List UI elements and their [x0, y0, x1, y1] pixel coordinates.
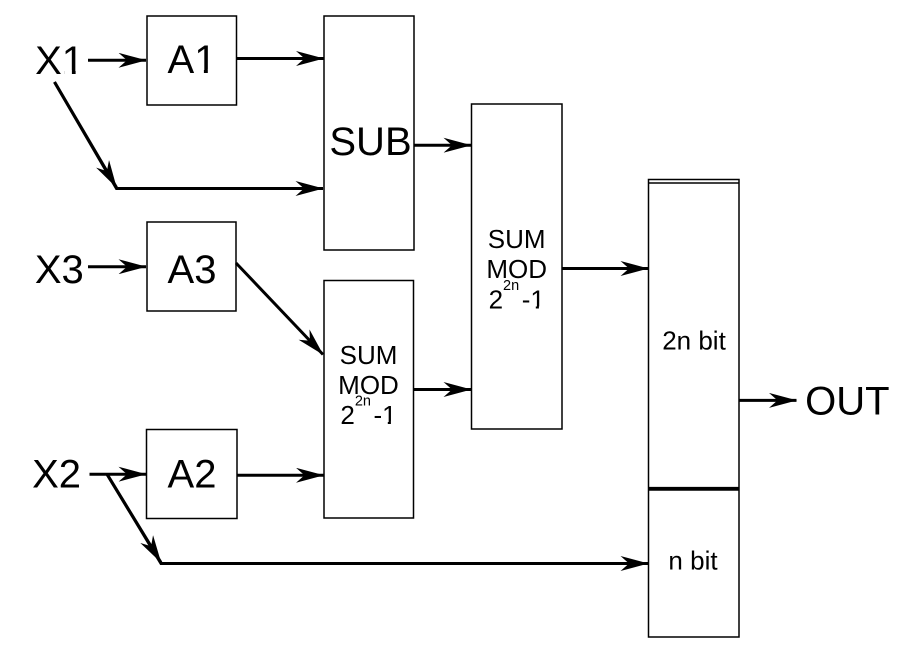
- svg-text:n bit: n bit: [668, 546, 718, 576]
- svg-text:SUM: SUM: [340, 340, 398, 370]
- svg-text:A3: A3: [168, 248, 217, 292]
- svg-text:SUM: SUM: [488, 224, 546, 254]
- svg-text:A2: A2: [168, 453, 217, 497]
- svg-text:A1: A1: [168, 38, 217, 82]
- svg-text:OUT: OUT: [805, 379, 889, 423]
- svg-text:X2: X2: [32, 453, 81, 497]
- svg-text:X1: X1: [35, 39, 84, 83]
- svg-text:2n bit: 2n bit: [662, 325, 726, 355]
- svg-text:X3: X3: [35, 248, 84, 292]
- svg-text:SUB: SUB: [329, 120, 411, 164]
